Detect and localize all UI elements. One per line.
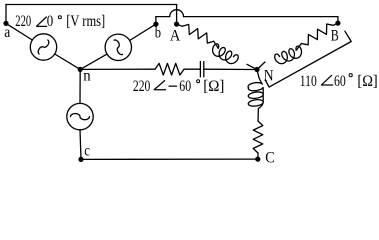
resistor in A-N branch: [182, 24, 213, 43]
wire resistor to inductor (A-N): [214, 41, 219, 48]
wire inductor to resistor (N-C): [257, 109, 259, 122]
wire c to C: [81, 158, 258, 160]
node C junction dot: [255, 157, 260, 162]
wire inductor to N (A branch): [247, 64, 257, 69]
svg-text:A: A: [170, 28, 181, 45]
wire b rail right of hop: [184, 16, 338, 18]
node b junction dot: [153, 22, 158, 27]
minus sign in Zb label: [169, 85, 177, 87]
degree sign in Zb label: [197, 80, 200, 83]
wire n to source Vc: [79, 69, 81, 103]
capacitor in Zb branch left plate: [199, 62, 201, 77]
svg-text:B: B: [331, 27, 339, 44]
wire drop to node A: [176, 5, 178, 25]
svg-text:[V rms]: [V rms]: [66, 13, 105, 30]
svg-text:220: 220: [15, 13, 31, 30]
svg-text:60: 60: [179, 78, 191, 95]
svg-text:[Ω]: [Ω]: [203, 78, 224, 95]
node B junction dot: [335, 21, 340, 26]
resistor in B-N branch: [301, 24, 333, 45]
wire drop to node B: [337, 17, 339, 24]
svg-text:110: 110: [300, 73, 317, 90]
ac source Va sine symbol: [38, 40, 49, 54]
svg-text:[Ω]: [Ω]: [357, 73, 377, 90]
wire B to resistor: [334, 23, 338, 25]
wire capacitor to N: [204, 68, 257, 70]
inductor in B-N branch: [275, 46, 302, 64]
ac source Va circle: [30, 34, 56, 60]
svg-text:0: 0: [47, 13, 54, 30]
ac source Vb circle: [105, 34, 131, 60]
wire b rail left of hop: [156, 16, 170, 18]
svg-text:a: a: [4, 24, 10, 41]
resistor in N-C branch: [253, 121, 263, 153]
angle symbol in Zb label: [154, 81, 166, 90]
svg-text:c: c: [84, 142, 90, 159]
wire resistor to capacitor: [184, 68, 200, 70]
node A junction dot: [174, 22, 179, 27]
inductor in N-C branch: [248, 77, 263, 109]
node c junction dot: [78, 157, 83, 162]
ac source Vc sine symbol: [71, 114, 90, 120]
wire source Va to n: [55, 54, 80, 69]
wire source Vc to c: [80, 130, 81, 160]
wire inductor to N (B branch): [257, 62, 265, 70]
wire n to source Vb: [80, 54, 107, 69]
degree sign in ZA label: [349, 74, 352, 77]
wire A to resistor: [177, 24, 183, 26]
angle symbol in source label: [37, 17, 47, 26]
svg-text:n: n: [83, 68, 90, 85]
svg-text:b: b: [155, 25, 161, 42]
wire resistor to C: [257, 153, 259, 159]
ac source Vb sine symbol: [114, 40, 122, 55]
wire b riser: [155, 17, 157, 25]
svg-text:C: C: [265, 149, 274, 166]
angle symbol in ZA label: [321, 75, 332, 85]
ac source Vc circle: [67, 103, 93, 129]
svg-text:N: N: [264, 68, 274, 85]
node N junction dot: [254, 67, 259, 72]
capacitor in Zb branch right plate: [203, 62, 205, 77]
resistor in Zb branch: [155, 63, 184, 75]
wire n to resistor Zb: [80, 68, 155, 70]
wire resistor to inductor (B-N): [296, 44, 301, 51]
label bracket for 110 ohm impedance: [265, 31, 351, 87]
node n junction dot: [78, 67, 83, 72]
wire source Vb to b: [130, 24, 156, 40]
wire top rail a-A: [6, 4, 177, 6]
svg-text:220: 220: [133, 78, 150, 95]
wire a to source Va: [6, 23, 32, 40]
node a junction dot: [3, 21, 8, 26]
wire a to top rail: [5, 5, 7, 24]
svg-text:60: 60: [334, 73, 346, 90]
degree sign in source label: [58, 16, 61, 19]
wire hop over a-A drop: [170, 10, 184, 17]
inductor in A-N branch: [213, 44, 239, 64]
wire N to inductor: [257, 70, 259, 78]
